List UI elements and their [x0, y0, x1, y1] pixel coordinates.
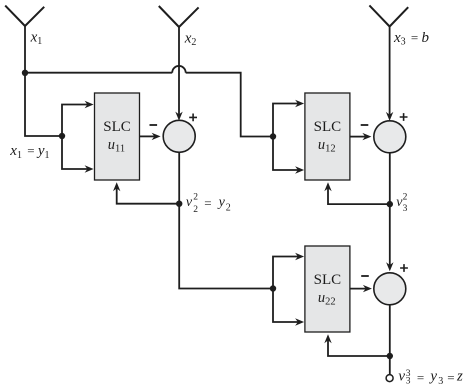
wire x2 stem down into summer 1 [178, 26, 180, 115]
arrowhead u22 output into summer 3 [363, 285, 372, 292]
svg-text:x2: x2 [184, 30, 197, 48]
svg-text:y: y [428, 369, 437, 385]
wire summer2 output down into summer 3 [389, 153, 391, 265]
arrowhead into summer 3 top [386, 262, 393, 271]
svg-text:2: 2 [193, 205, 198, 215]
svg-text:SLC: SLC [103, 119, 131, 135]
svg-text:2: 2 [403, 193, 408, 203]
svg-text:=: = [447, 370, 454, 385]
svg-text:3: 3 [438, 376, 443, 387]
arrowhead u11 upper input [85, 101, 94, 108]
SLC block u11 [95, 93, 140, 180]
SLC block u22 [305, 246, 350, 332]
arrowhead u22 upper input [295, 253, 304, 260]
wire u22 lower input [273, 289, 298, 323]
antenna 2 [159, 6, 199, 27]
label v3^2 [396, 193, 407, 214]
summer circle 3 [374, 273, 406, 305]
plus sign at summer 2 [400, 113, 408, 121]
svg-text:z: z [456, 369, 463, 385]
wire z feedback into u22 bottom [328, 340, 390, 356]
junction node v3^2 [387, 201, 393, 207]
junction node x1 branch [59, 133, 65, 139]
arrowhead x2 into summer 1 [175, 112, 182, 121]
svg-text:3: 3 [406, 376, 411, 386]
wire u11 upper input [62, 105, 88, 137]
wire u12 lower input [273, 137, 298, 171]
svg-text:x1: x1 [30, 30, 43, 48]
plus sign at summer 1 [189, 114, 197, 122]
crossover hop over x2 line [172, 66, 186, 73]
junction node v2 = y2 [176, 201, 182, 207]
junction node u12 input branch [270, 133, 276, 139]
junction node u22 input branch [270, 285, 276, 291]
open output terminal [386, 375, 393, 382]
summer circle 2 [374, 121, 406, 153]
wire x3 stem down into summer 2 [389, 26, 391, 115]
label v2^2 = y2 [186, 193, 231, 215]
minus sign at summer 1 [150, 124, 158, 126]
svg-text:v: v [186, 195, 193, 210]
svg-text:x3 = b: x3 = b [393, 30, 430, 48]
arrowhead v3^2 into u12 bottom [324, 182, 331, 191]
wire bus from x1 node, left of crossover [25, 72, 172, 74]
svg-text:=: = [204, 196, 211, 211]
svg-text:v: v [398, 369, 405, 385]
antenna 3 [369, 5, 408, 26]
wire u12 upper input [273, 104, 298, 137]
wire summer3 output down to terminal [389, 305, 391, 375]
antenna 1 [5, 6, 44, 26]
wire v2 feedback into u11 bottom [117, 188, 180, 204]
wire x1 stem down to branch corner [25, 25, 62, 136]
arrowhead u12 output into summer 2 [362, 133, 371, 140]
svg-text:x1 = y1: x1 = y1 [9, 143, 49, 161]
svg-text:2: 2 [193, 193, 198, 203]
wire u22 output [350, 288, 366, 290]
arrowhead u11 lower input [85, 165, 94, 172]
minus sign at summer 3 [361, 275, 369, 277]
svg-text:2: 2 [226, 202, 231, 213]
label v3^3 = y3 = z [398, 369, 463, 387]
wire summer1 output down then right to u22 feed [179, 152, 273, 288]
svg-text:3: 3 [403, 204, 408, 214]
arrowhead u22 lower input [295, 318, 304, 325]
arrowhead z into u22 bottom [324, 334, 331, 343]
junction node z output [387, 353, 393, 359]
wire u11 lower input [62, 136, 88, 169]
arrowhead u11 output into summer 1 [152, 133, 161, 140]
junction node on x1 line [22, 70, 28, 76]
arrowhead u12 lower input [295, 166, 304, 173]
minus sign at summer 2 [361, 124, 369, 126]
svg-text:SLC: SLC [314, 272, 342, 288]
arrowhead v2 into u11 bottom [113, 182, 120, 191]
svg-text:y: y [217, 195, 226, 210]
wire u22 upper input [273, 257, 298, 289]
arrowhead u12 upper input [295, 100, 304, 107]
plus sign at summer 3 [400, 264, 408, 272]
wire u12 output [350, 136, 365, 138]
wire v3^2 feedback into u12 bottom [328, 188, 390, 204]
wire u11 output [140, 135, 155, 137]
svg-text:SLC: SLC [314, 119, 342, 135]
SLC block u12 [305, 93, 350, 180]
wire bus right of crossover, down to u12 feed [186, 73, 273, 137]
arrowhead x3 into summer 2 [386, 112, 393, 121]
summer circle 1 [163, 120, 195, 152]
svg-text:=: = [417, 370, 424, 385]
